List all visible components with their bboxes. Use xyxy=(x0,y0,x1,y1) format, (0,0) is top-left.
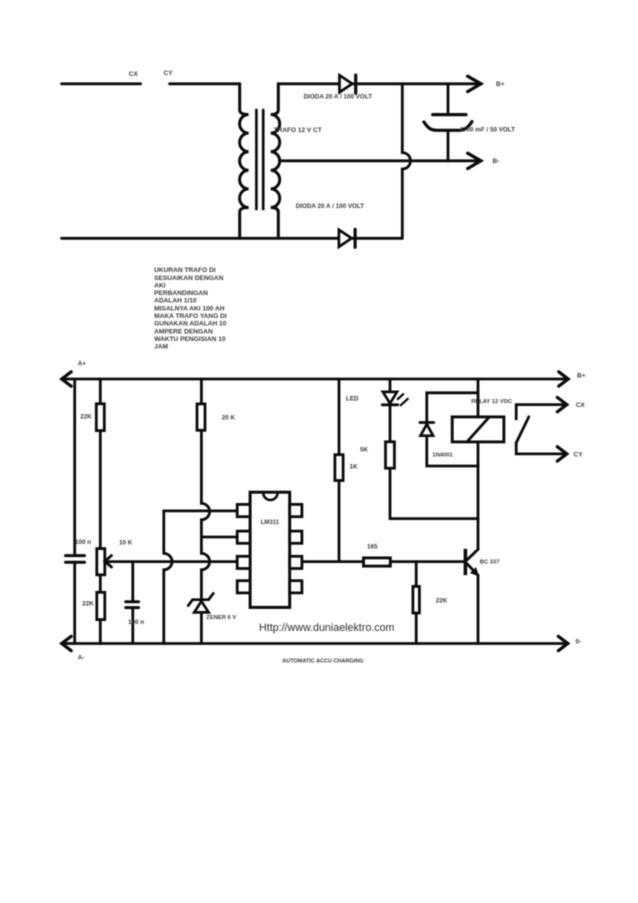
svg-text:Http://www.duniaelektro.com: Http://www.duniaelektro.com xyxy=(259,622,395,634)
relay K1 RELAY 12 VDC coil xyxy=(452,417,504,442)
svg-text:CY: CY xyxy=(164,70,174,77)
wire center tap to B- xyxy=(280,159,481,162)
wire secondary top to B+ xyxy=(278,82,481,85)
resistor R6 165 (base series) xyxy=(364,558,391,566)
svg-text:LM311: LM311 xyxy=(261,520,280,526)
wire far-left branch upper xyxy=(73,379,76,556)
wire far-left branch lower xyxy=(73,562,76,643)
transistor Q1 BC337 base bar xyxy=(464,549,468,575)
svg-text:100 n: 100 n xyxy=(75,539,91,546)
transistor Q1 collector lead xyxy=(467,549,478,559)
wire LED branch xyxy=(390,379,478,519)
wire IC output to transistor base xyxy=(302,560,464,563)
resistor R2 22K xyxy=(97,592,105,619)
resistor R3 20K xyxy=(197,404,205,430)
node CX arrow xyxy=(557,397,567,411)
svg-text:WAKTU PENGISIAN 10: WAKTU PENGISIAN 10 xyxy=(154,336,226,343)
svg-text:B+: B+ xyxy=(577,373,586,380)
svg-text:AUTOMATIC ACCU CHARGING: AUTOMATIC ACCU CHARGING xyxy=(282,659,363,665)
resistor R7 22K (base pull-down) xyxy=(415,562,418,644)
note text block xyxy=(154,267,227,351)
transformer T1 primary winding xyxy=(240,84,249,239)
wire flyback diode loop xyxy=(427,393,478,466)
svg-text:JAM: JAM xyxy=(154,344,168,351)
svg-text:1K: 1K xyxy=(350,464,359,471)
svg-text:22K: 22K xyxy=(436,597,448,604)
svg-text:100 n: 100 n xyxy=(128,619,144,626)
diode D5 1N4001 xyxy=(420,421,434,424)
wire IC pin1 to ground (corner + hop over wiper wire) xyxy=(164,511,237,644)
diode D1 DIODA 20A/100V (top) xyxy=(340,75,353,92)
svg-text:GUNAKAN ADALAH 10: GUNAKAN ADALAH 10 xyxy=(154,321,227,328)
resistor R5 5K xyxy=(386,442,395,468)
node A+ arrow xyxy=(62,372,71,386)
pin 6 (right, output) xyxy=(290,556,302,568)
pin 7 (right) xyxy=(290,531,302,543)
svg-text:B+: B+ xyxy=(496,81,505,88)
svg-text:4700 mF / 50 VOLT: 4700 mF / 50 VOLT xyxy=(460,126,516,133)
svg-text:CY: CY xyxy=(574,452,584,459)
svg-text:DIODA 20 A / 100 VOLT: DIODA 20 A / 100 VOLT xyxy=(304,94,373,101)
svg-text:B-: B- xyxy=(493,158,500,165)
svg-text:165: 165 xyxy=(367,543,378,550)
switch S1 blade xyxy=(516,417,529,443)
pin 4 (left bottom) xyxy=(237,581,250,593)
svg-text:A+: A+ xyxy=(78,361,87,368)
svg-text:TRAFO 12 V CT: TRAFO 12 V CT xyxy=(274,127,322,134)
svg-text:RELAY 12 VDC: RELAY 12 VDC xyxy=(471,399,513,405)
svg-text:22K: 22K xyxy=(82,601,94,608)
svg-text:5K: 5K xyxy=(360,446,369,453)
svg-text:MISALNYA AKI 100 AH: MISALNYA AKI 100 AH xyxy=(154,305,225,312)
diode D2 DIODA 20A/100V (bottom) xyxy=(339,230,352,247)
wire rectifier join vertical (hops over center tap) xyxy=(402,84,410,239)
svg-text:20 K: 20 K xyxy=(222,415,236,422)
LED D4 xyxy=(383,392,397,404)
switch S1 to CY xyxy=(516,443,567,454)
pin 8 (right top) xyxy=(290,504,302,516)
wire reference branch x201 (hops over pin1 wire and wiper wire) xyxy=(201,379,209,601)
pin 2 (left) xyxy=(237,531,250,543)
wire wiper to IC pin3 xyxy=(105,560,237,563)
svg-text:SESUAIKAN DENGAN: SESUAIKAN DENGAN xyxy=(154,275,223,282)
op-amp U1 LM311 body xyxy=(250,492,290,607)
svg-text:DIODA 20 A / 100 VOLT: DIODA 20 A / 100 VOLT xyxy=(296,203,365,210)
switch S1 relay contact to CX xyxy=(516,403,567,406)
svg-text:ADALAH 1/10: ADALAH 1/10 xyxy=(154,298,197,305)
wire relay bottom to collector xyxy=(477,442,480,550)
wire divider branch x100 xyxy=(99,379,102,644)
svg-text:CX: CX xyxy=(129,71,139,78)
transformer T1 core xyxy=(255,110,258,209)
capacitor C3 100n (wiper filter) xyxy=(131,562,134,602)
wire CY input to transformer primary xyxy=(170,82,240,85)
svg-text:CX: CX xyxy=(576,402,586,409)
resistor R4 1K xyxy=(335,455,343,481)
svg-text:AMPERE DENGAN: AMPERE DENGAN xyxy=(154,328,213,335)
resistor R1 22K xyxy=(96,404,104,431)
wire IC pin2 to reference branch xyxy=(201,536,237,539)
wire 1K pull-up branch xyxy=(338,379,341,562)
svg-text:AKI: AKI xyxy=(154,282,166,289)
capacitor C2 100n xyxy=(66,554,85,557)
wire A- / 0- bottom rail xyxy=(62,642,568,645)
svg-text:BC 337: BC 337 xyxy=(480,560,500,566)
svg-text:0-: 0- xyxy=(576,639,582,646)
node B- arrow (top circuit) xyxy=(468,153,481,168)
wire relay branch from rail xyxy=(477,379,480,417)
capacitor C1 4700mF/50V xyxy=(447,84,450,115)
transistor Q1 emitter lead with arrow xyxy=(467,564,478,575)
pin 3 (left) xyxy=(237,556,250,568)
svg-text:LED: LED xyxy=(346,396,359,403)
svg-text:1N4001: 1N4001 xyxy=(432,453,453,459)
zener D3 ZENER 6V xyxy=(193,598,209,601)
svg-text:MAKA TRAFO YANG DI: MAKA TRAFO YANG DI xyxy=(154,313,227,320)
svg-text:PERBANDINGAN: PERBANDINGAN xyxy=(154,290,208,297)
transformer T1 secondary winding with center tap xyxy=(271,84,280,239)
node CY arrow xyxy=(557,447,567,461)
pin 5 (right bottom) xyxy=(290,581,302,593)
node B+ arrow (lower circuit) xyxy=(559,372,569,386)
node 0- arrow xyxy=(558,636,568,650)
svg-text:22K: 22K xyxy=(80,414,92,421)
wire A+ / B+ top rail xyxy=(62,378,569,381)
wire transformer bottom to diode D2 xyxy=(62,237,403,240)
svg-text:10 K: 10 K xyxy=(119,540,133,547)
potentiometer VR1 10K xyxy=(97,549,105,575)
node B+ arrow (top circuit) xyxy=(468,76,481,91)
svg-text:UKURAN TRAFO DI: UKURAN TRAFO DI xyxy=(154,267,216,274)
svg-text:A-: A- xyxy=(78,655,85,662)
svg-text:ZENER 6 V: ZENER 6 V xyxy=(206,615,236,621)
node A- arrow xyxy=(62,636,71,650)
pin 1 (left top) xyxy=(237,504,250,516)
wire CX input (top-left mains lead) xyxy=(62,82,141,85)
